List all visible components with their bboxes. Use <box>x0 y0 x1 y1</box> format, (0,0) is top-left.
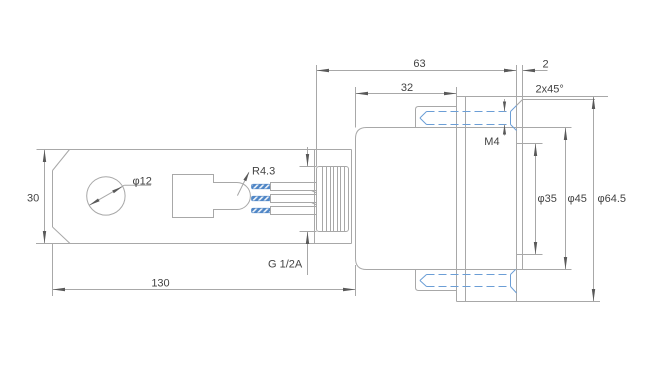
paddle bottom edge with extension line <box>36 243 352 245</box>
svg-text:φ45: φ45 <box>568 193 587 205</box>
paddle top-left chamfer <box>53 150 70 171</box>
svg-text:32: 32 <box>401 82 413 94</box>
G1/2A upper arrow <box>307 147 309 167</box>
M4 tapped hole upper (hidden lines) <box>420 106 517 131</box>
body left edge <box>355 139 357 259</box>
body bottom-left corner <box>356 259 367 270</box>
svg-text:63: 63 <box>413 58 425 70</box>
upper electrode tip (hatched) <box>252 184 271 189</box>
svg-text:130: 130 <box>151 277 169 289</box>
dia45 bottom arrowhead <box>564 257 567 270</box>
dim 130 right arrowhead <box>343 288 356 291</box>
paddle top edge with extension line <box>37 149 352 151</box>
svg-text:2: 2 <box>542 58 548 70</box>
phi12 leader line <box>89 185 124 205</box>
flange chamfer edge line top <box>523 99 596 101</box>
dim 30 bottom arrowhead <box>43 231 46 244</box>
R4.3 leader arrowhead <box>243 172 249 182</box>
dia35 top arrowhead <box>534 144 537 157</box>
paddle left edge <box>52 171 54 228</box>
G1/2A lower arrow <box>307 232 309 276</box>
flange bottom edge + dia64.5 extension <box>457 301 601 303</box>
svg-text:G 1/2A: G 1/2A <box>268 259 303 271</box>
M4 upper arrow <box>504 99 506 112</box>
dim 63 right arrowhead <box>504 69 517 72</box>
M4 tapped hole lower (hidden lines) <box>420 270 517 294</box>
paddle bottom-left chamfer <box>53 227 71 244</box>
dim 32 line <box>356 93 457 95</box>
phi12 leader arrowhead upper-right <box>112 187 122 194</box>
dia64.5 bottom arrowhead <box>592 289 595 302</box>
flange top edge + dia64.5 extension <box>457 96 609 98</box>
dia45 top arrowhead <box>564 128 567 141</box>
upper electrode rod <box>271 183 317 191</box>
dim 63 left arrowhead <box>317 69 330 72</box>
svg-text:φ35: φ35 <box>538 193 557 205</box>
lower electrode tip (hatched) <box>252 208 271 213</box>
upper mounting tab <box>416 107 457 128</box>
lower mounting tab <box>416 270 457 291</box>
body top edge + dia45 top extension <box>367 127 572 129</box>
dia35 dim line <box>535 144 537 255</box>
dim 32 extension left <box>355 87 357 128</box>
dia64.5 top arrowhead <box>592 97 595 110</box>
dim 130 left extension <box>52 244 54 297</box>
hole circle (dia 12) <box>87 177 125 215</box>
G1/2A top extension line <box>300 166 317 168</box>
G1/2A bottom extension line <box>300 231 317 233</box>
dim 63 left extension + thread left edge <box>316 65 318 167</box>
dim 32 left arrowhead <box>356 92 369 95</box>
middle electrode tip taper <box>312 203 317 205</box>
lower electrode rod <box>271 207 317 215</box>
dim 130 right extension <box>355 265 357 296</box>
dim 30 top arrowhead <box>43 150 46 163</box>
svg-text:30: 30 <box>27 192 39 204</box>
middle electrode tip (hatched) <box>252 196 271 201</box>
dim 130 line <box>53 289 356 291</box>
svg-text:R4.3: R4.3 <box>252 165 275 177</box>
dim 130 left arrowhead <box>53 288 66 291</box>
body bottom edge + dia45 bottom extension <box>367 269 572 271</box>
svg-text:2x45°: 2x45° <box>536 83 564 95</box>
flange 2x45 chamfer diagonal <box>517 100 523 106</box>
dim 30 line <box>44 150 46 244</box>
M4 lower arrow <box>504 125 506 136</box>
dim 32 right arrowhead <box>444 92 457 95</box>
thread outline G1/2 <box>317 167 349 232</box>
flange disc right face <box>351 150 353 244</box>
dia64.5 dim line <box>593 97 595 302</box>
R4.3 leader line <box>237 173 248 196</box>
flange disc left face <box>314 150 316 244</box>
svg-text:φ12: φ12 <box>133 175 152 187</box>
flange inner edge line <box>465 97 467 302</box>
dia35 top extension <box>517 143 543 145</box>
electrode holder outline (keyhole shape) <box>173 175 251 218</box>
dim 2 left arrow <box>504 70 517 72</box>
dia35 bottom arrowhead <box>534 242 537 255</box>
svg-text:φ64.5: φ64.5 <box>598 193 627 205</box>
body top-left corner <box>356 128 367 139</box>
flange right face + dim-63/2 extension <box>516 65 518 302</box>
phi12 leader arrowhead lower-left <box>89 199 99 206</box>
dia35 bottom extension <box>517 254 543 256</box>
upper electrode tip taper <box>312 191 317 193</box>
dim 2 right arrow <box>523 70 548 72</box>
middle electrode rod <box>271 195 317 203</box>
svg-text:M4: M4 <box>484 136 499 148</box>
flange chamfer back line + dim-2 extension <box>522 65 524 270</box>
dim 63 line <box>317 70 517 72</box>
dia45 dim line <box>565 128 567 270</box>
flange left face + dim-32 extension <box>456 87 458 302</box>
thread crest lines <box>323 167 345 231</box>
